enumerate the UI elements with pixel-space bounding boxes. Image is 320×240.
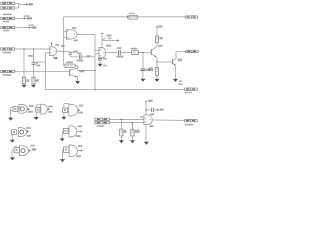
TR2 collector: [70, 68, 78, 70]
TR3 VCC flag arrow: [156, 26, 158, 28]
label C5 below: [117, 56, 124, 58]
wire to C8: [146, 109, 151, 111]
connector J12: [185, 119, 198, 121]
label TR2: [80, 70, 85, 72]
IC1c bottom pin: [145, 125, 147, 142]
wire VCC rail: [64, 16, 186, 18]
TR4 collector: [173, 59, 177, 61]
wire J10 to IC1c: [109, 118, 144, 120]
pin mark out: [54, 50, 55, 51]
switch S1 pole: [101, 34, 103, 48]
label under J11: [97, 125, 105, 127]
wire frame left vertical: [63, 17, 65, 66]
OC1 arrow: [28, 108, 30, 110]
label under IC1a: [73, 40, 77, 42]
ground R7: [155, 79, 160, 82]
label OC2 top: [48, 106, 52, 108]
wire R9 drop: [131, 123, 133, 129]
label R3: [66, 62, 72, 64]
node collector branch: [145, 109, 147, 111]
label C4 below: [77, 60, 84, 62]
label under J4: [3, 30, 9, 32]
OC2 top wire: [35, 105, 37, 108]
label R8: [124, 130, 127, 133]
wire R7 to ground: [156, 75, 158, 79]
switch S1 crossbar: [101, 33, 104, 35]
earpiece LS1: [12, 128, 27, 137]
label IC1c above: [150, 114, 154, 116]
wire C3 to C4: [70, 56, 78, 58]
connector J5: [1, 48, 15, 50]
ground OC2: [34, 117, 39, 120]
mark above LS3 box: [15, 146, 17, 147]
capacitor C4: [79, 55, 81, 60]
label on wire: [87, 55, 91, 57]
label OC2 bottom: [48, 111, 52, 113]
ground LS3: [10, 157, 15, 160]
TR2 emitter arrow: [75, 76, 77, 78]
resistor R3: [65, 64, 75, 67]
node R8: [121, 119, 123, 121]
wire TR3 emitter down: [156, 58, 158, 63]
ground LS4: [60, 159, 65, 162]
wire R8 drop: [120, 119, 122, 129]
gate bottom pin: [53, 56, 55, 58]
wire C2 to R2: [33, 64, 35, 77]
IC1b pin mark 2: [100, 55, 101, 56]
wire C2 drop: [33, 49, 35, 62]
wire C8 to net arrow: [153, 109, 157, 111]
IC1a pin mark 3: [74, 34, 75, 35]
label R7: [149, 68, 154, 72]
wire C6 to ground: [99, 60, 101, 64]
label C2 value: [36, 65, 40, 67]
LS4 out line: [77, 150, 81, 152]
label near ground: [103, 65, 107, 67]
pin mark in2: [50, 52, 51, 53]
label C4 above: [77, 53, 82, 55]
wire C7 to ground: [142, 71, 144, 79]
label IC1a: [72, 27, 76, 29]
pin mark in1: [50, 48, 51, 49]
IC1b bottom pin: [99, 57, 101, 60]
wire S1 to net arrow: [102, 40, 117, 42]
node R9: [132, 122, 134, 124]
label S1 second: [108, 38, 112, 40]
label below J9: [185, 92, 193, 94]
IC1a input stub 2: [64, 36, 67, 38]
label F1: [129, 13, 135, 15]
label LS2 bottom: [76, 135, 81, 137]
label OC3 top: [79, 105, 84, 107]
wire J2 to junction: [15, 7, 19, 9]
gate IC1a-in: [49, 47, 56, 56]
wire C3 bottom: [69, 54, 71, 57]
connector J1: [1, 2, 15, 4]
wire collector node vertical: [77, 66, 79, 71]
wire ground rail: [45, 89, 184, 91]
transistor TR3 base bar: [150, 49, 152, 55]
capacitor C5: [119, 50, 121, 55]
gate input 2 stub: [45, 52, 49, 54]
IC1b pin mark 1: [100, 49, 101, 50]
transistor TR4 base bar: [172, 59, 174, 64]
wire R9 ground: [131, 136, 133, 140]
label LS2 top: [78, 125, 82, 127]
wire R6 top: [156, 27, 158, 36]
capacitor C2: [32, 63, 36, 65]
wire TR2 emitter down: [77, 77, 79, 81]
OC3 top wire h: [64, 103, 70, 105]
wire TR4 emitter down: [175, 66, 177, 79]
plus mark C2: [36, 63, 37, 64]
wire to R3: [64, 65, 65, 67]
net label above B: [24, 15, 30, 16]
TR3 emitter arrow: [155, 55, 157, 57]
net arrow D: [117, 39, 119, 41]
label mid bottom: [137, 129, 139, 133]
switch S1 blade: [102, 38, 106, 41]
IC1a pin mark 1: [67, 31, 68, 32]
wire emitter node to TR4 base: [157, 61, 173, 63]
label LS4 bottom: [76, 155, 81, 157]
connector J7 battery: [185, 16, 198, 18]
label LS1 bottom: [27, 135, 31, 137]
node mid column: [94, 70, 96, 72]
OC3 ground drop: [63, 112, 65, 116]
TR3 emitter: [151, 54, 157, 58]
ground R8: [119, 140, 124, 143]
gate IC1b: [99, 48, 106, 58]
wire C2 node to ground rail: [34, 61, 46, 63]
connector J2: [1, 7, 15, 9]
label under J5: [3, 52, 12, 54]
label under J1 J2: [3, 14, 11, 16]
wire collector node to mid column: [78, 70, 95, 72]
optocoupler OC1: [13, 104, 27, 113]
connector J8 output: [186, 50, 199, 52]
wire J6 to TR2 base: [15, 71, 70, 73]
label C5 above: [117, 47, 122, 49]
OC1 ground drop: [10, 107, 12, 117]
earpiece LS3: [14, 146, 28, 156]
label at gate top: [55, 44, 59, 46]
connector J6: [1, 70, 15, 72]
LS4 lead left: [63, 149, 64, 151]
gate IC1c: [144, 115, 152, 125]
wire R1 to ground: [23, 84, 25, 85]
capacitor C8: [152, 108, 154, 112]
earpiece LS4: [64, 145, 78, 156]
LS3 arrow: [29, 150, 31, 152]
LS2 out line: [77, 130, 81, 132]
label S1: [106, 35, 111, 37]
wire R3 to collector node: [75, 65, 78, 67]
resistor R2: [32, 77, 35, 83]
wire J1 to junction: [15, 2, 19, 4]
label TR3 VCC: [158, 25, 162, 27]
wire J11 to IC1c: [109, 122, 144, 124]
label OC3 bottom: [78, 112, 83, 114]
IC1c VCC flag arrow: [145, 100, 147, 102]
node C7: [142, 52, 144, 54]
capacitor C6: [98, 59, 102, 61]
label C7: [146, 69, 150, 71]
net label A: [29, 3, 33, 5]
label OC1 top: [29, 105, 34, 107]
TR3 collector riser: [156, 43, 158, 47]
label LS3 top: [30, 145, 35, 147]
OC3 top wire: [63, 104, 65, 109]
label IC1c VCC: [148, 100, 153, 102]
net arrow C: [29, 26, 31, 28]
wire R2 to ground: [33, 84, 35, 85]
LS2 arrow: [81, 130, 83, 132]
optocoupler OC2: [36, 104, 48, 114]
gate output wire: [57, 50, 70, 53]
label R9: [135, 130, 138, 133]
ground C7: [140, 79, 145, 82]
label IC1c below: [149, 125, 153, 127]
gate top flag arrow: [51, 42, 53, 44]
net arrow A: [26, 3, 28, 5]
ground TR2: [75, 81, 80, 84]
TR3 collector: [151, 46, 157, 50]
label near TR4 ground: [179, 80, 183, 82]
optocoupler OC3: [63, 104, 78, 116]
label C2: [28, 55, 33, 57]
wire R1 drop: [23, 49, 25, 77]
wire C3 top tick: [69, 51, 71, 54]
TR4 emitter: [173, 63, 176, 66]
ground R9: [130, 140, 135, 143]
resistor R9: [131, 129, 134, 136]
net label E: [160, 109, 164, 111]
wire ground-rail left vertical: [44, 53, 46, 90]
fuse F1: [129, 15, 137, 19]
IC1c pin mark 2: [145, 122, 146, 123]
label under J3: [3, 21, 9, 23]
resistor R1: [22, 77, 25, 83]
transistor TR2 base bar: [69, 69, 71, 76]
wire TR4 to J8: [176, 50, 186, 52]
wire J5 to gate input 1: [15, 48, 50, 50]
wire J4 to net arrow: [15, 27, 29, 29]
gate top pin: [51, 43, 53, 47]
label under J6: [3, 74, 12, 76]
connector J10: [95, 118, 109, 120]
OC3 arrow: [78, 109, 80, 111]
wire J3 to net arrow: [15, 17, 24, 19]
wire to net arrow: [19, 3, 27, 5]
resistor R6: [155, 36, 158, 43]
label TR4: [178, 59, 183, 62]
LS2 ground drop: [61, 131, 63, 138]
ground R1: [22, 85, 27, 88]
wire middle column vertical: [94, 35, 96, 90]
label R6: [159, 37, 162, 39]
IC1b output wire: [106, 52, 118, 54]
node J5-R1: [23, 48, 25, 50]
OC2 ground drop: [35, 112, 37, 117]
ground LS1: [10, 140, 15, 143]
ground C6: [98, 64, 103, 67]
IC1b input stub 1: [95, 49, 99, 51]
LS1 ground drop: [11, 134, 13, 139]
wire C4 to IC1b column: [81, 56, 95, 58]
LS4 ground drop: [62, 150, 64, 159]
node middle rail: [94, 89, 96, 91]
IC1b input stub 2: [95, 53, 99, 55]
net arrow B: [24, 17, 26, 19]
wire C7 drop: [142, 53, 144, 69]
IC1c pin mark 1: [145, 118, 146, 119]
earpiece LS2: [63, 126, 77, 137]
IC1c pin mark 3: [150, 119, 151, 120]
LS4 arrow: [81, 150, 83, 152]
wire to R7: [156, 62, 158, 68]
gate IC1a: [66, 30, 77, 39]
label R2: [36, 79, 39, 81]
net arrow E: [157, 109, 159, 111]
wire IC1c top pin riser: [145, 101, 147, 115]
connector J3: [1, 17, 15, 19]
dark label under gate: [54, 57, 58, 59]
ground R2: [31, 85, 36, 88]
IC1c output wire: [152, 119, 184, 121]
TR2 emitter: [70, 75, 78, 77]
label IC1c pin left: [140, 116, 143, 118]
label LS4 top: [78, 145, 82, 147]
net label above C: [29, 25, 34, 26]
ground OC3: [61, 117, 66, 120]
OC2 arrow: [48, 108, 50, 110]
wire C5 to R4: [120, 52, 131, 54]
resistor R8: [120, 129, 123, 136]
IC1a pin mark 2: [67, 37, 68, 38]
connector J11: [95, 122, 109, 124]
wire junction vertical: [18, 3, 20, 8]
node J5-C2: [33, 48, 35, 50]
capacitor C3: [69, 53, 72, 55]
IC1a input stub 1: [64, 30, 67, 32]
LS1 arrow: [27, 130, 29, 132]
label R4: [131, 48, 138, 50]
label R1: [26, 79, 29, 81]
label LS1 top: [26, 127, 30, 129]
label C6: [103, 58, 107, 60]
LS3 ground drop: [11, 150, 13, 157]
OC1 lead bottom: [11, 109, 13, 111]
label IC1a-in: [61, 45, 65, 47]
ground IC1c: [144, 142, 149, 145]
connector J4: [1, 26, 15, 28]
label under J12: [185, 124, 194, 126]
node emitter junction: [156, 61, 158, 63]
fuse F1 lead tick: [127, 16, 129, 19]
net label B: [26, 17, 32, 19]
net label C: [31, 27, 36, 29]
label LS3 right: [32, 148, 37, 150]
capacitor C7 plates: [140, 69, 145, 71]
connector J9: [185, 88, 198, 90]
LS2 lead left: [62, 130, 63, 132]
label above J9: [178, 83, 182, 85]
OC1 lead top: [11, 106, 13, 108]
LS3 lead left: [12, 149, 14, 151]
plus mark C3: [73, 52, 74, 53]
ground LS2: [60, 138, 65, 141]
wire R8 ground: [120, 136, 122, 140]
label TR3: [158, 45, 162, 47]
label OC1 bottom: [28, 111, 33, 113]
label IC1b: [106, 45, 111, 47]
IC1a output wire: [77, 34, 95, 36]
ground TR4: [173, 79, 178, 82]
TR4 collector riser: [175, 51, 177, 58]
OC2 top wire h: [36, 104, 41, 106]
IC1b pin mark 3: [103, 52, 104, 53]
resistor R4: [132, 51, 140, 55]
ground OC1: [8, 118, 13, 121]
wire R4 to Q1: [139, 52, 152, 54]
resistor R7: [155, 68, 158, 76]
TR4 emitter arrow: [174, 64, 176, 66]
label C3: [73, 51, 77, 53]
